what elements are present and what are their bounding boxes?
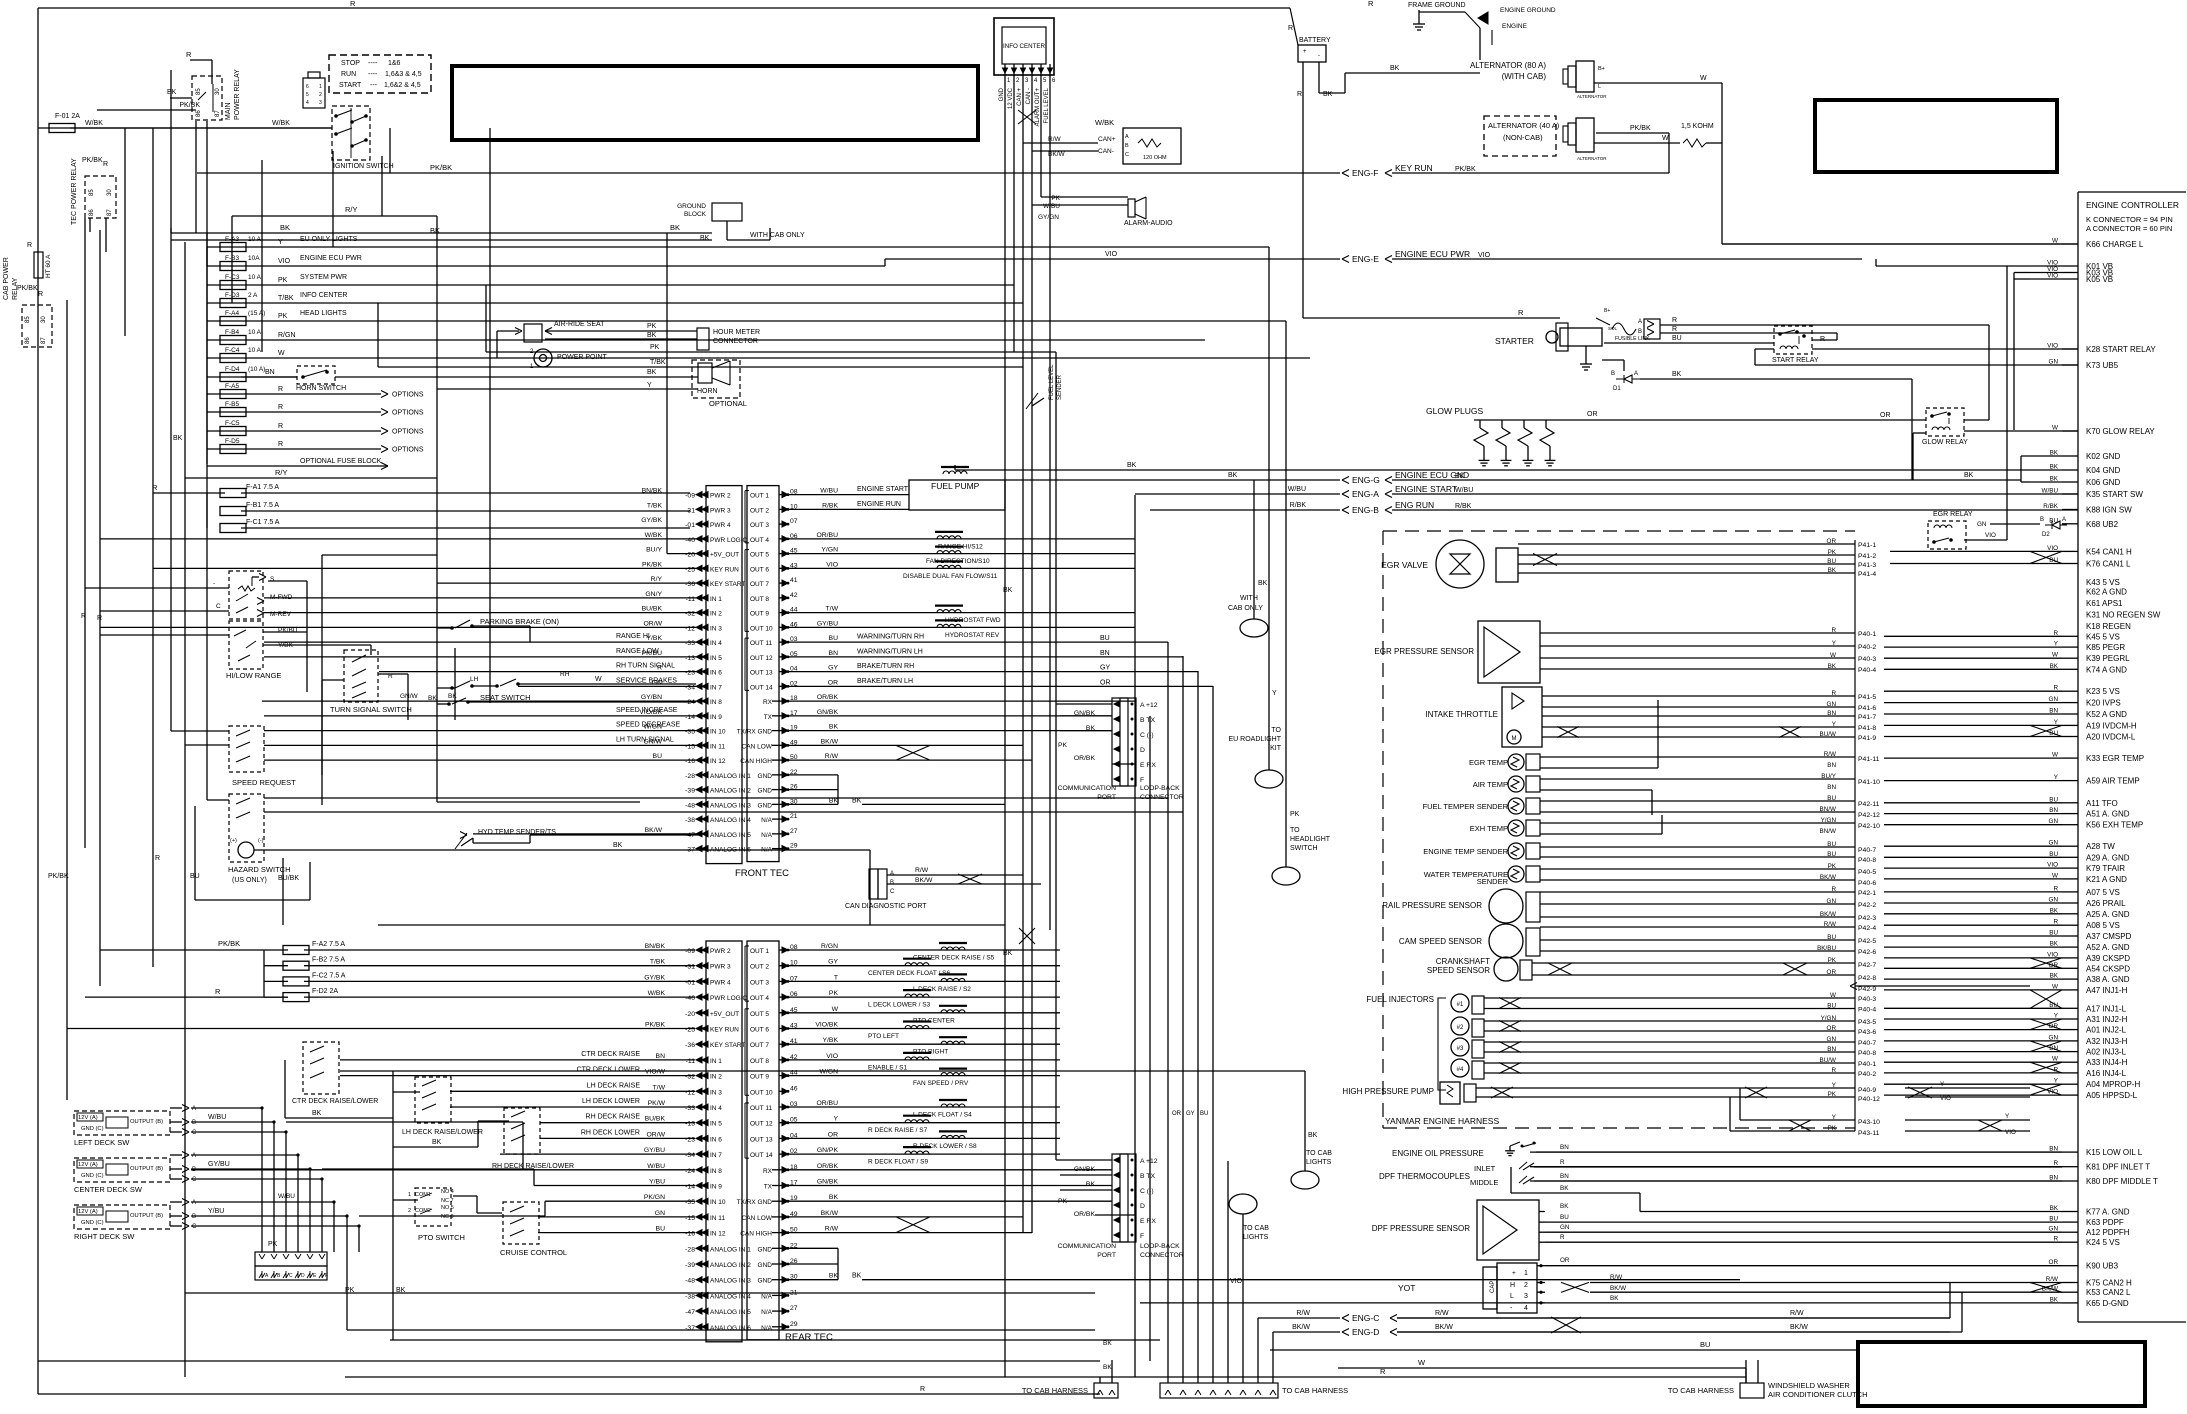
svg-text:F-B4: F-B4	[225, 329, 239, 336]
svg-text:FUEL TEMPER SENDER: FUEL TEMPER SENDER	[1423, 802, 1509, 811]
fuel level sender	[1032, 398, 1044, 406]
svg-text:C: C	[192, 1177, 197, 1183]
svg-text:R: R	[1831, 886, 1836, 893]
svg-text:PK/BU: PK/BU	[278, 627, 298, 634]
svg-text:HI/LOW RANGE: HI/LOW RANGE	[226, 671, 281, 680]
svg-text:R: R	[1831, 627, 1836, 634]
svg-text:A39 CKSPD: A39 CKSPD	[2086, 954, 2130, 963]
wire: OPTIONAL FUSE BLOCK	[207, 465, 388, 467]
svg-text:R: R	[278, 404, 283, 411]
svg-text:OUT 3: OUT 3	[750, 522, 769, 529]
svg-text:PK/GN: PK/GN	[644, 1194, 665, 1201]
svg-text:E RX: E RX	[1140, 762, 1156, 769]
svg-text:DISABLE DUAL FAN FLOW/S11: DISABLE DUAL FAN FLOW/S11	[903, 573, 998, 580]
svg-text:PK: PK	[278, 313, 288, 320]
svg-text:PARKING BRAKE (ON): PARKING BRAKE (ON)	[480, 617, 560, 626]
svg-text:P40-8: P40-8	[1858, 857, 1876, 864]
svg-text:P43-10: P43-10	[1858, 1119, 1880, 1126]
svg-text:GN: GN	[655, 1210, 665, 1217]
bottom left frame	[1095, 1393, 1100, 1395]
svg-text:PK: PK	[1828, 863, 1837, 870]
svg-text:CAN LOW: CAN LOW	[742, 1215, 773, 1222]
svg-text:(NON-CAB): (NON-CAB)	[1503, 133, 1543, 142]
svg-text:OUT 10: OUT 10	[750, 625, 773, 632]
svg-text:CAN +: CAN +	[1017, 88, 1023, 106]
svg-text:TX/RX GND: TX/RX GND	[737, 1199, 773, 1206]
svg-text:BU: BU	[1827, 934, 1836, 941]
svg-text:P41-4: P41-4	[1858, 571, 1876, 578]
svg-text:GND: GND	[999, 87, 1005, 101]
svg-text:GY/BU: GY/BU	[817, 620, 838, 627]
lh deck raise/lower switch	[415, 1077, 451, 1123]
svg-text:OR/BK: OR/BK	[1074, 1211, 1096, 1218]
title block top right	[1815, 100, 2057, 172]
svg-text:3: 3	[319, 100, 322, 106]
svg-text:WINDSHIELD WASHER: WINDSHIELD WASHER	[1768, 1381, 1850, 1390]
right column crossovers	[2030, 551, 2062, 563]
svg-text:T: T	[834, 974, 838, 981]
svg-text:#3: #3	[1457, 1046, 1464, 1052]
svg-text:PK/BK: PK/BK	[17, 285, 38, 292]
svg-text:F-A1 7.5 A: F-A1 7.5 A	[246, 484, 279, 491]
svg-text:R/BK: R/BK	[2043, 503, 2058, 510]
to headlight switch oval	[1272, 867, 1300, 885]
svg-text:BU: BU	[653, 753, 663, 760]
ctr deck raise/lower switch	[303, 1042, 339, 1094]
svg-text:5: 5	[306, 92, 309, 98]
svg-text:VIO: VIO	[826, 1053, 838, 1060]
svg-text:SPEED DECREASE: SPEED DECREASE	[616, 722, 681, 729]
svg-text:HIGH PRESSURE PUMP: HIGH PRESSURE PUMP	[1342, 1087, 1434, 1096]
svg-text:PK/BK: PK/BK	[1630, 125, 1651, 132]
svg-text:1,6&3 & 4,5: 1,6&3 & 4,5	[385, 71, 422, 78]
svg-text:SYSTEM PWR: SYSTEM PWR	[300, 274, 347, 281]
svg-text:A: A	[2062, 517, 2066, 523]
deck vertical wires	[261, 1108, 263, 1252]
front tec can wires	[789, 744, 1023, 746]
svg-text:GY: GY	[828, 959, 838, 966]
svg-text:OR: OR	[1100, 679, 1111, 686]
svg-text:IN 1: IN 1	[710, 1058, 722, 1065]
svg-text:R: R	[1518, 308, 1524, 317]
svg-text:ALTERNATOR (80 A): ALTERNATOR (80 A)	[1470, 61, 1546, 70]
svg-text:PK: PK	[1828, 1091, 1837, 1098]
svg-text:FUEL INJECTORS: FUEL INJECTORS	[1366, 995, 1434, 1004]
gnd jumper front	[837, 775, 839, 805]
svg-text:RH TURN SIGNAL: RH TURN SIGNAL	[616, 663, 675, 670]
hyd temp sender	[461, 838, 473, 846]
svg-text:OPTIONS: OPTIONS	[392, 392, 424, 399]
svg-text:IN 3: IN 3	[710, 625, 722, 632]
svg-text:K74 A GND: K74 A GND	[2086, 665, 2127, 674]
svg-text:ANALOG IN 5: ANALOG IN 5	[710, 1309, 751, 1316]
rear fuse group	[263, 950, 265, 997]
svg-text:BU: BU	[1672, 335, 1682, 342]
svg-text:ENGINE OIL PRESSURE: ENGINE OIL PRESSURE	[1392, 1149, 1484, 1158]
svg-text:INTAKE THROTTLE: INTAKE THROTTLE	[1425, 710, 1498, 719]
svg-text:BK/W: BK/W	[645, 827, 663, 834]
svg-text:BK: BK	[1390, 65, 1400, 72]
rear left long wires	[340, 1059, 695, 1061]
svg-text:W: W	[1830, 652, 1836, 659]
svg-text:4: 4	[1524, 1305, 1528, 1312]
svg-text:BK: BK	[1964, 472, 1974, 479]
info center	[994, 18, 1054, 75]
parking brake switch	[455, 620, 470, 628]
svg-text:BU: BU	[1200, 1111, 1208, 1117]
svg-text:R: R	[27, 242, 32, 249]
svg-text:SPEED SENSOR: SPEED SENSOR	[1427, 966, 1490, 975]
svg-text:K52 A GND: K52 A GND	[2086, 710, 2127, 719]
svg-text:OUT 6: OUT 6	[750, 1027, 769, 1034]
wire: PK/BK into relay	[97, 109, 196, 111]
svg-text:GN/Y: GN/Y	[645, 591, 662, 598]
svg-text:OR: OR	[1172, 1111, 1182, 1117]
svg-text:#1: #1	[1457, 1002, 1464, 1008]
svg-text:R: R	[1672, 317, 1677, 324]
svg-text:P40-2: P40-2	[1858, 644, 1876, 651]
svg-text:OR/W: OR/W	[647, 1131, 666, 1138]
can crossover to terminator	[1018, 110, 1036, 124]
svg-text:IN 4: IN 4	[710, 1105, 722, 1112]
svg-text:TX: TX	[764, 714, 773, 721]
svg-text:BK: BK	[1003, 950, 1013, 957]
svg-text:ANALOG IN 2: ANALOG IN 2	[710, 788, 751, 795]
svg-text:OUTPUT (B): OUTPUT (B)	[130, 1166, 163, 1172]
svg-text:IN 12: IN 12	[710, 758, 726, 765]
pto switch	[415, 1188, 451, 1226]
svg-text:INLET: INLET	[1474, 1164, 1496, 1173]
svg-text:F-C4: F-C4	[225, 347, 240, 354]
svg-text:EGR RELAY: EGR RELAY	[1933, 511, 1973, 518]
svg-text:R/W: R/W	[825, 1226, 839, 1233]
svg-text:BK: BK	[1828, 663, 1837, 670]
svg-text:KEY RUN: KEY RUN	[710, 1027, 739, 1034]
svg-text:ANALOG IN 1: ANALOG IN 1	[710, 773, 751, 780]
svg-text:BK: BK	[1828, 567, 1837, 574]
svg-text:A: A	[1638, 319, 1642, 325]
svg-text:K65 D-GND: K65 D-GND	[2086, 1299, 2129, 1308]
svg-text:BK: BK	[613, 842, 623, 849]
svg-text:IN 6: IN 6	[710, 1136, 722, 1143]
svg-text:PK: PK	[1058, 742, 1068, 749]
svg-text:IN 11: IN 11	[710, 1215, 725, 1222]
svg-text:P41-11: P41-11	[1858, 756, 1880, 763]
svg-text:C: C	[192, 1130, 197, 1136]
svg-text:K66 CHARGE L: K66 CHARGE L	[2086, 240, 2144, 249]
svg-text:D: D	[1140, 1203, 1145, 1210]
svg-text:RANGE HI: RANGE HI	[616, 633, 650, 640]
svg-text:C: C	[192, 1224, 197, 1230]
svg-text:BU: BU	[1827, 795, 1836, 802]
svg-text:A33 INJ4-H: A33 INJ4-H	[2086, 1058, 2128, 1067]
wire: R bottom	[345, 1376, 1746, 1378]
svg-text:K56 EXH TEMP: K56 EXH TEMP	[2086, 821, 2143, 830]
svg-text:R: R	[81, 613, 86, 620]
svg-text:A37 CMSPD: A37 CMSPD	[2086, 932, 2132, 941]
svg-text:OR/BU: OR/BU	[816, 532, 838, 539]
svg-text:CTR DECK RAISE: CTR DECK RAISE	[581, 1051, 640, 1058]
svg-text:ENG-D: ENG-D	[1352, 1327, 1379, 1337]
svg-text:R: R	[215, 987, 221, 996]
svg-text:ANALOG IN 6: ANALOG IN 6	[710, 1325, 751, 1332]
svg-text:SWITCH: SWITCH	[1290, 845, 1318, 852]
wire: starter R rows	[1660, 324, 1989, 326]
svg-text:PK: PK	[1828, 1125, 1837, 1132]
svg-text:B+: B+	[1598, 66, 1605, 72]
svg-text:GN/W: GN/W	[400, 693, 419, 700]
svg-text:-11: -11	[686, 1058, 696, 1065]
svg-text:HEADLIGHT: HEADLIGHT	[1290, 836, 1331, 843]
svg-text:W/BK: W/BK	[85, 120, 103, 127]
to cab harness small connector	[1094, 1383, 1118, 1398]
svg-text:RUN: RUN	[341, 71, 356, 78]
svg-text:BK: BK	[167, 89, 177, 96]
svg-text:ENG-A: ENG-A	[1352, 489, 1379, 499]
svg-text:P40-3: P40-3	[1858, 656, 1876, 663]
svg-text:PK/BK: PK/BK	[642, 561, 662, 568]
svg-text:ENG RUN: ENG RUN	[1395, 500, 1434, 510]
svg-text:30: 30	[107, 189, 113, 196]
svg-text:OUT 2: OUT 2	[750, 964, 769, 971]
svg-text:K35 START SW: K35 START SW	[2086, 490, 2143, 499]
svg-text:GLOW PLUGS: GLOW PLUGS	[1426, 406, 1483, 416]
svg-text:STARTER: STARTER	[1495, 336, 1534, 346]
hour meter connector	[697, 328, 709, 350]
svg-text:OUT 8: OUT 8	[750, 596, 769, 603]
svg-text:R: R	[1560, 1159, 1565, 1166]
svg-text:T/W: T/W	[653, 1084, 666, 1091]
svg-text:FUEL LEVEL: FUEL LEVEL	[1049, 364, 1055, 400]
svg-text:R: R	[38, 291, 43, 298]
svg-text:K18 REGEN: K18 REGEN	[2086, 622, 2131, 631]
svg-text:K24 5 VS: K24 5 VS	[2086, 1238, 2120, 1247]
hazard switch	[229, 794, 264, 862]
svg-text:BU: BU	[1827, 841, 1836, 848]
gnd jumper rear	[837, 1248, 839, 1279]
svg-text:R/BK: R/BK	[1455, 503, 1472, 510]
svg-text:BK/W: BK/W	[1610, 1285, 1626, 1292]
svg-text:B TX: B TX	[1140, 717, 1155, 724]
svg-text:P42-1: P42-1	[1858, 890, 1876, 897]
svg-text:VIO: VIO	[2005, 1129, 2016, 1136]
svg-text:GN: GN	[1977, 521, 1987, 528]
svg-text:IN 9: IN 9	[710, 714, 722, 721]
svg-text:OR: OR	[1827, 969, 1837, 976]
svg-text:BK: BK	[1003, 587, 1013, 594]
svg-text:GY/BK: GY/BK	[644, 974, 665, 981]
svg-text:K02 GND: K02 GND	[2086, 452, 2120, 461]
svg-text:R/BK: R/BK	[1290, 502, 1307, 509]
svg-text:A01 INJ2-L: A01 INJ2-L	[2086, 1026, 2127, 1035]
svg-text:R: R	[1831, 1067, 1836, 1074]
svg-text:OUT 3: OUT 3	[750, 979, 769, 986]
svg-text:ALARM OUT+: ALARM OUT+	[1035, 88, 1041, 127]
wire: R/Y row	[185, 477, 437, 479]
svg-text:W/BU: W/BU	[208, 1114, 226, 1121]
svg-text:B: B	[2040, 517, 2044, 523]
svg-text:-13: -13	[685, 655, 695, 662]
svg-text:OUTPUT (B): OUTPUT (B)	[130, 1119, 163, 1125]
svg-text:BN: BN	[1100, 650, 1110, 657]
can diagnostic port	[869, 869, 878, 899]
svg-text:-23: -23	[685, 1136, 695, 1143]
svg-text:P41-1: P41-1	[1858, 542, 1876, 549]
svg-text:VIO: VIO	[1105, 251, 1118, 258]
front tec right wires	[789, 494, 909, 496]
svg-text:LH TURN SIGNAL: LH TURN SIGNAL	[616, 736, 674, 743]
connector column P4x	[1854, 540, 1856, 1131]
svg-text:START: START	[339, 82, 362, 89]
svg-text:R/GN: R/GN	[278, 332, 296, 339]
svg-text:CONNECTOR: CONNECTOR	[713, 338, 758, 345]
svg-text:ANALOG IN 1: ANALOG IN 1	[710, 1246, 751, 1253]
svg-text:BU: BU	[1827, 558, 1836, 565]
svg-text:BK: BK	[829, 1194, 839, 1201]
svg-text:PK: PK	[647, 323, 657, 330]
svg-text:BU/Y: BU/Y	[646, 547, 662, 554]
EGR valve	[1436, 540, 1484, 588]
svg-text:-01: -01	[685, 522, 695, 529]
svg-text:C: C	[216, 603, 221, 610]
svg-text:REAR TEC: REAR TEC	[785, 1332, 833, 1343]
misc lower-left long wires	[185, 1292, 1095, 1294]
svg-text:BK/W: BK/W	[915, 877, 933, 884]
svg-text:-12: -12	[685, 625, 695, 632]
svg-text:C: C	[289, 1273, 293, 1279]
svg-text:W/BU: W/BU	[1455, 487, 1473, 494]
svg-text:Y: Y	[833, 1116, 838, 1123]
speed request switch	[229, 726, 264, 772]
svg-text:INFO CENTER: INFO CENTER	[1003, 43, 1045, 50]
svg-text:A: A	[192, 1153, 196, 1159]
svg-text:-15: -15	[685, 743, 695, 750]
svg-text:(10 A): (10 A)	[248, 366, 265, 373]
svg-text:ANALOG IN 5: ANALOG IN 5	[710, 832, 751, 839]
svg-text:BK/W: BK/W	[1292, 1324, 1310, 1331]
svg-text:PK: PK	[1828, 549, 1837, 556]
svg-text:GND: GND	[758, 773, 773, 780]
svg-text:EXH TEMP: EXH TEMP	[1470, 824, 1508, 833]
svg-text:OUT 12: OUT 12	[750, 655, 773, 662]
svg-text:M-REV: M-REV	[270, 611, 292, 618]
svg-text:A: A	[1634, 371, 1638, 377]
svg-text:10 A: 10 A	[248, 347, 262, 354]
svg-text:IN 7: IN 7	[710, 1152, 722, 1159]
svg-text:BN: BN	[656, 1053, 666, 1060]
svg-text:EGR PRESSURE SENSOR: EGR PRESSURE SENSOR	[1374, 647, 1474, 656]
svg-text:PK: PK	[1828, 957, 1837, 964]
svg-text:R: R	[1297, 91, 1302, 98]
svg-text:BK: BK	[312, 1110, 322, 1117]
svg-text:ENGINE GROUND: ENGINE GROUND	[1500, 7, 1556, 14]
middle vertical bundle	[1134, 700, 1136, 1377]
svg-text:BK: BK	[1127, 462, 1137, 469]
svg-text:12V (A): 12V (A)	[78, 1115, 98, 1121]
svg-text:F-B2 7.5 A: F-B2 7.5 A	[312, 957, 345, 964]
svg-text:P41-3: P41-3	[1858, 562, 1876, 569]
svg-text:85: 85	[89, 189, 95, 196]
svg-text:P43-5: P43-5	[1858, 1019, 1876, 1026]
svg-text:RIGHT DECK SW: RIGHT DECK SW	[74, 1232, 135, 1241]
svg-text:YANMAR ENGINE HARNESS: YANMAR ENGINE HARNESS	[1385, 1116, 1499, 1126]
wire: alternator40 PK/BK + W	[1596, 132, 1669, 134]
svg-text:42: 42	[790, 592, 798, 599]
svg-text:R: R	[1368, 0, 1374, 8]
svg-text:PK: PK	[1051, 195, 1060, 202]
svg-text:TX: TX	[764, 1184, 773, 1191]
deck outputs to rear tec inputs	[286, 1121, 523, 1123]
svg-text:F-D5: F-D5	[225, 438, 240, 445]
svg-text:OUT 7: OUT 7	[750, 1042, 769, 1049]
svg-text:-33: -33	[685, 640, 695, 647]
svg-text:P40-4: P40-4	[1858, 1007, 1876, 1014]
harness: YANMAR ENGINE HARNESS dashed box	[1382, 531, 1384, 1128]
front tec feed verticals	[666, 233, 668, 554]
svg-text:ALARM-AUDIO: ALARM-AUDIO	[1124, 220, 1173, 227]
svg-text:VIO/BK: VIO/BK	[815, 1022, 838, 1029]
svg-text:21: 21	[790, 813, 798, 820]
svg-text:Y/GN: Y/GN	[1821, 817, 1837, 824]
svg-text:IGNITION SWITCH: IGNITION SWITCH	[333, 163, 394, 170]
controller: ENGINE CONTROLLER box	[2077, 192, 2079, 1322]
svg-text:A31 INJ2-H: A31 INJ2-H	[2086, 1015, 2128, 1024]
svg-text:OR: OR	[1880, 412, 1891, 419]
svg-text:A CONNECTOR = 60 PIN: A CONNECTOR = 60 PIN	[2086, 224, 2172, 233]
svg-text:B: B	[192, 1214, 196, 1220]
svg-text:P41-9: P41-9	[1858, 735, 1876, 742]
svg-text:WARNING/TURN LH: WARNING/TURN LH	[857, 648, 923, 655]
svg-text:LH DECK LOWER: LH DECK LOWER	[582, 1098, 640, 1105]
svg-text:RH DECK RAISE: RH DECK RAISE	[586, 1114, 641, 1121]
svg-text:LH DECK RAISE: LH DECK RAISE	[587, 1082, 641, 1089]
svg-text:KEY START: KEY START	[710, 581, 745, 588]
svg-text:PWR 4: PWR 4	[710, 979, 731, 986]
svg-text:IN 8: IN 8	[710, 699, 722, 706]
svg-text:NO 4: NO 4	[441, 1189, 454, 1195]
svg-text:HOUR METER: HOUR METER	[713, 329, 760, 336]
svg-text:P42-5: P42-5	[1858, 938, 1876, 945]
svg-text:A29 A. GND: A29 A. GND	[2086, 853, 2130, 862]
svg-text:PWR 4: PWR 4	[710, 522, 731, 529]
turn signal switch	[344, 650, 378, 702]
svg-text:VIO: VIO	[1940, 1095, 1951, 1102]
svg-text:R/W: R/W	[915, 867, 929, 874]
svg-text:FUEL PUMP: FUEL PUMP	[931, 481, 980, 491]
svg-text:TURN SIGNAL SWITCH: TURN SIGNAL SWITCH	[330, 705, 412, 714]
svg-text:#2: #2	[1457, 1025, 1464, 1031]
svg-text:120 OHM: 120 OHM	[1143, 155, 1167, 161]
svg-text:BK: BK	[829, 724, 839, 731]
svg-text:BK: BK	[1323, 91, 1333, 98]
svg-text:A +12: A +12	[1140, 1158, 1158, 1165]
svg-text:L DECK LOWER / S3: L DECK LOWER / S3	[868, 1002, 931, 1009]
svg-text:KEY RUN: KEY RUN	[710, 566, 739, 573]
svg-text:OUT 10: OUT 10	[750, 1089, 773, 1096]
svg-text:R/W: R/W	[1824, 921, 1836, 928]
svg-text:W: W	[1700, 75, 1707, 82]
svg-text:R/W: R/W	[1610, 1274, 1622, 1281]
svg-text:LEFT DECK SW: LEFT DECK SW	[74, 1138, 130, 1147]
wire: BK from D1 to ENG-G bus	[1640, 378, 1912, 380]
svg-text:RH DECK RAISE/LOWER: RH DECK RAISE/LOWER	[492, 1163, 574, 1170]
svg-text:P43-11: P43-11	[1858, 1130, 1880, 1137]
svg-text:K43 5 VS: K43 5 VS	[2086, 578, 2120, 587]
ignition switch	[332, 106, 370, 160]
svg-text:P40-6: P40-6	[1858, 880, 1876, 887]
svg-text:85: 85	[196, 88, 202, 95]
svg-text:TO CAB HARNESS: TO CAB HARNESS	[1668, 1386, 1734, 1395]
